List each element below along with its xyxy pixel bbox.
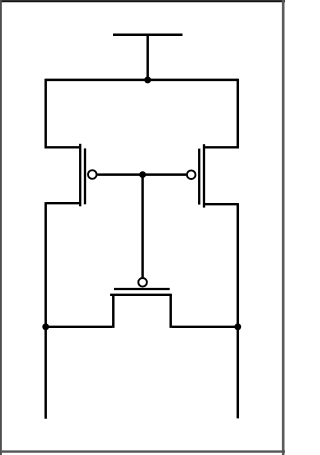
frame bottom edge: [0, 450, 285, 452]
wire top rail: [46, 79, 238, 81]
wire right rail-to-source: [204, 79, 238, 148]
wire VDD stem: [146, 35, 148, 80]
frame top edge: [0, 0, 285, 2]
frame right edge: [282, 0, 285, 455]
transistor M3 (bottom PMOS) gate bar: [114, 288, 170, 290]
transistor M2 drain stub: [204, 203, 238, 205]
transistor M1 drain stub: [46, 202, 80, 204]
transistor M1 gate bar: [84, 148, 86, 204]
wire gate net horizontal: [97, 173, 186, 175]
transistor M2 (right PMOS) channel plate: [203, 144, 205, 207]
power supply VDD bar: [113, 34, 183, 37]
wire bottom rail right segment: [172, 326, 238, 328]
node junction dot at VDD rail: [144, 76, 151, 83]
transistor M3 gate bubble: [138, 278, 147, 287]
transistor M1 gate bubble: [88, 170, 97, 179]
transistor M1 (left PMOS) channel plate: [79, 144, 81, 207]
node junction dot bottom-right: [234, 323, 241, 330]
transistor M3 source leg: [112, 295, 114, 328]
wire gate net vertical drop: [141, 175, 143, 278]
transistor M3 channel plate: [110, 294, 172, 296]
node junction dot at gate net: [139, 171, 146, 178]
transistor M3 drain leg: [169, 295, 171, 328]
wire bottom rail left segment: [46, 326, 113, 328]
wire left drain-down: [44, 202, 46, 419]
frame left edge: [0, 0, 2, 455]
transistor M2 gate bar: [198, 149, 200, 205]
transistor M2 gate bubble: [187, 170, 196, 179]
wire left rail-to-source: [46, 79, 80, 148]
wire right drain-down: [237, 203, 239, 418]
node junction dot bottom-left: [42, 323, 49, 330]
